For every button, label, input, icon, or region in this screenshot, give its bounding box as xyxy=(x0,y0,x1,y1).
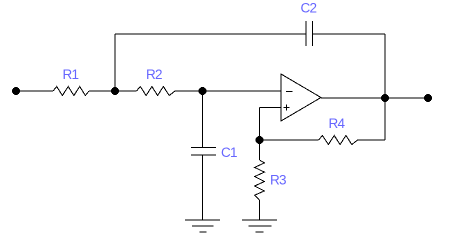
ground under R3 xyxy=(242,220,277,232)
svg-text:R2: R2 xyxy=(146,67,162,82)
ground under C1 xyxy=(185,220,220,232)
node B junction xyxy=(199,87,207,95)
node output terminal xyxy=(424,94,432,102)
wire C1 to ground xyxy=(202,155,204,220)
wire up to output node xyxy=(384,98,386,140)
svg-text:R4: R4 xyxy=(329,116,346,131)
node A junction xyxy=(111,87,119,95)
node C junction xyxy=(256,136,264,144)
resistor R2 xyxy=(137,87,176,96)
wire op-amp output xyxy=(321,97,428,99)
wire node C to R4 xyxy=(260,139,319,141)
op-amp U1 xyxy=(281,74,321,121)
wire R1 to node A xyxy=(89,90,137,92)
wire R4 to output branch xyxy=(358,139,385,141)
svg-text:R1: R1 xyxy=(63,67,79,82)
op-amp U1 non-inverting pin mark xyxy=(283,105,289,111)
node input terminal xyxy=(12,87,20,95)
wire R3 to ground xyxy=(259,200,261,220)
wire op-amp non-inverting input left xyxy=(260,107,282,109)
wire input terminal to R1 xyxy=(16,90,53,92)
svg-text:C1: C1 xyxy=(221,145,237,160)
resistor R3 xyxy=(255,160,265,200)
wire node C to R3 xyxy=(259,140,261,160)
resistor R4 xyxy=(319,136,358,145)
wire top feedback right segment xyxy=(312,33,385,35)
wire down to node C xyxy=(259,108,261,141)
wire node A up to C2 feedback xyxy=(114,34,116,91)
svg-text:R3: R3 xyxy=(270,173,286,188)
capacitor C2 xyxy=(306,21,312,46)
wire R2 to op-amp inverting input xyxy=(175,90,281,92)
capacitor C1 xyxy=(191,148,216,156)
wire top feedback left segment xyxy=(115,33,306,35)
resistor R1 xyxy=(53,87,89,96)
op-amp U1 inverting pin mark xyxy=(286,91,293,93)
node output junction xyxy=(381,94,389,102)
wire feedback down to output node xyxy=(384,34,386,98)
svg-text:C2: C2 xyxy=(301,1,317,16)
wire node B down to C1 xyxy=(202,91,204,148)
